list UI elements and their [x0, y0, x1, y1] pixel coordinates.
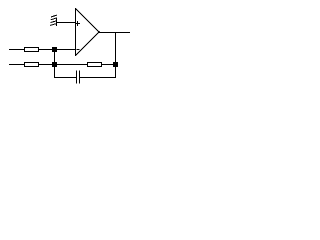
- wire vertical bus node A to bottom rail: [54, 49, 55, 78]
- wire op-amp output: [99, 32, 130, 33]
- node B junction dot: [52, 62, 57, 67]
- capacitor C1: [76, 71, 80, 84]
- wire node A to inverting input: [57, 49, 75, 50]
- node C junction dot: [113, 62, 118, 67]
- wire node B to R3: [57, 64, 87, 65]
- resistor R2: [24, 62, 39, 67]
- resistor R1: [24, 47, 39, 52]
- op-amp U1: [75, 8, 100, 56]
- wire R3 to node C: [102, 64, 113, 65]
- wire R2 to node B: [39, 64, 52, 65]
- wire input A left lead: [9, 49, 24, 50]
- wire bottom rail left: [54, 77, 76, 78]
- wire bottom rail right: [80, 77, 116, 78]
- op-amp minus label: [77, 49, 80, 50]
- op-amp plus label: [76, 21, 80, 26]
- wire ground to non-inverting input: [57, 22, 75, 23]
- wire output vertical branch: [115, 32, 116, 78]
- node A junction dot: [52, 47, 57, 52]
- ground: [50, 15, 57, 26]
- wire input B left lead: [9, 64, 24, 65]
- resistor R3 feedback: [87, 62, 102, 67]
- wire R1 to node A: [39, 49, 52, 50]
